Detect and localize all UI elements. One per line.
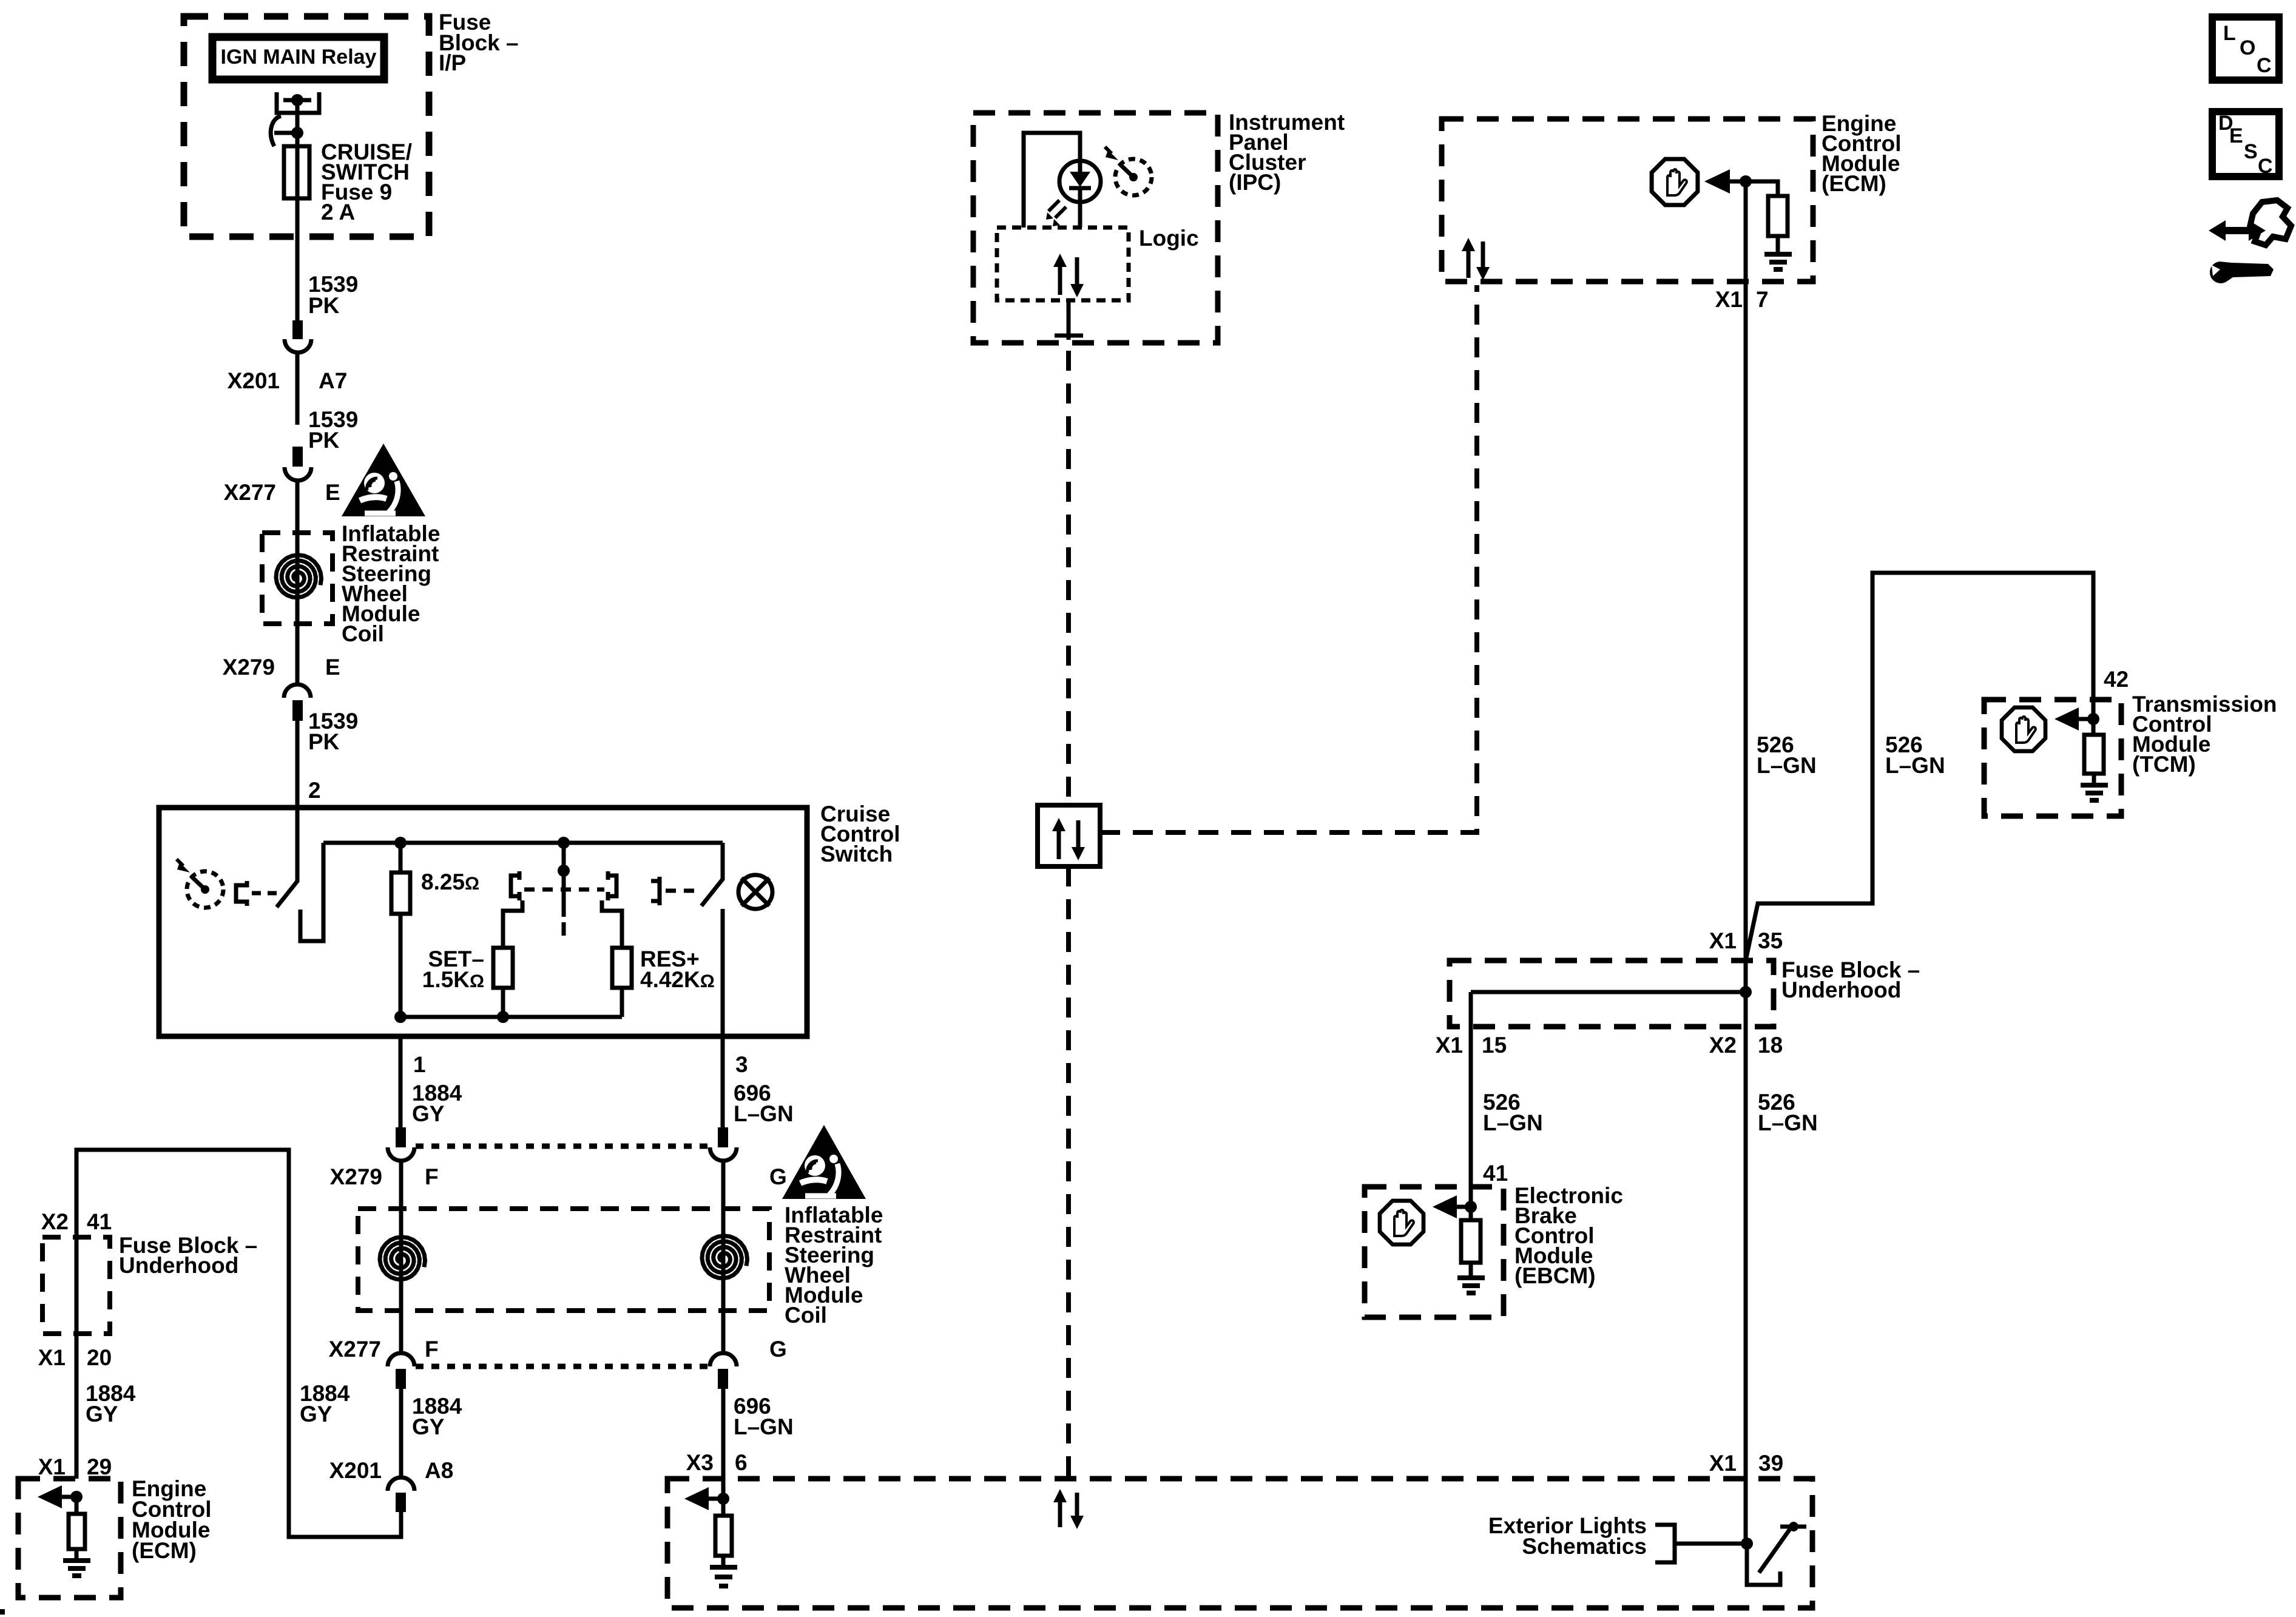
relay armature arc	[271, 116, 281, 146]
resistor TCM	[2092, 719, 2096, 735]
RES fixed contact hook	[602, 900, 622, 948]
svg-text:42: 42	[2104, 667, 2129, 692]
connector X201 A7 socket arc	[285, 339, 311, 353]
resistor 8.25 ohm	[399, 843, 403, 873]
svg-text:Underhood: Underhood	[119, 1253, 238, 1278]
wire pin2 inside box	[295, 808, 300, 882]
wire X1-35 through to X2-18	[1744, 960, 1748, 1027]
fuse CRUISE/SWITCH Fuse 9	[284, 146, 309, 198]
coil symbol F	[380, 1237, 425, 1280]
svg-text:35: 35	[1758, 928, 1783, 953]
svg-text:4.42KΩ: 4.42KΩ	[640, 967, 715, 992]
node bus-pin1	[394, 1011, 407, 1023]
svg-text:X277: X277	[329, 1337, 381, 1362]
wire LED loop	[1024, 133, 1080, 228]
svg-text:C: C	[2258, 155, 2273, 178]
wire 1539 PK (fuse to X201)	[295, 198, 300, 320]
svg-text:E: E	[325, 655, 340, 680]
on/off switch linkage bracket	[236, 881, 247, 906]
svg-text:L–GN: L–GN	[734, 1414, 794, 1439]
coil symbol G	[702, 1236, 748, 1278]
resistor EBCM	[1461, 1220, 1481, 1263]
svg-text:Underhood: Underhood	[1781, 977, 1901, 1002]
svg-text:2: 2	[308, 778, 321, 803]
svg-text:A7: A7	[319, 368, 347, 393]
wire coil2 to X277 F	[399, 1281, 403, 1354]
connector X279 E socket arc	[284, 684, 311, 698]
junction box (serial data)	[1038, 805, 1100, 866]
wire 1539 PK (X201 to X277)	[295, 354, 300, 425]
svg-text:X1: X1	[1715, 287, 1743, 312]
svg-text:1.5KΩ: 1.5KΩ	[422, 967, 484, 992]
svg-text:X277: X277	[224, 480, 276, 505]
coil dashed box 2	[358, 1209, 769, 1311]
SET fixed contact hook	[503, 900, 522, 948]
signal arrow (ECM left)	[59, 1495, 76, 1499]
page mark	[0, 1609, 5, 1615]
wire terminal X279 F	[396, 1127, 406, 1147]
dashed link junction box to exterior lights box	[1066, 866, 1071, 1479]
svg-text:Coil: Coil	[785, 1303, 827, 1328]
svg-text:L–GN: L–GN	[1757, 753, 1817, 778]
relay IGN MAIN Relay box	[212, 37, 384, 79]
svg-text:X2: X2	[1709, 1033, 1737, 1058]
wire 696 L-GN (pin3 to X279 G)	[721, 1036, 725, 1129]
connector X201 A8 socket arc	[388, 1477, 414, 1491]
up/down arrows (ECM)	[1462, 238, 1490, 280]
svg-text:G: G	[769, 1164, 787, 1189]
exterior lights switch contact	[1780, 1525, 1806, 1529]
wire terminal X279 G	[718, 1127, 728, 1147]
wire 1884 GY loop (A8 down, left, up, left)	[76, 1150, 401, 1537]
wire 526 L-GN (ECM X1-7 down to fuse block)	[1744, 181, 1748, 960]
wire X277 to coil	[295, 482, 300, 601]
dashed link IPC to junction box	[1066, 351, 1071, 805]
svg-text:L–GN: L–GN	[1885, 753, 1945, 778]
node EBCM junction	[1465, 1201, 1477, 1213]
svg-text:Logic: Logic	[1139, 226, 1199, 251]
LED indicator	[1059, 161, 1101, 202]
svg-text:39: 39	[1758, 1451, 1783, 1476]
IPC pin tick	[1055, 334, 1083, 338]
indicator lamp	[738, 875, 772, 909]
ECM (bottom left) dashed box	[18, 1479, 121, 1598]
resistor RES 4.42K	[612, 948, 632, 988]
transmission control module dashed box	[1984, 700, 2121, 816]
wire terminal X277 G	[718, 1369, 728, 1389]
connector X277 F socket arc	[388, 1353, 414, 1366]
coil symbol (steering wheel module coil)	[276, 555, 322, 598]
svg-text:X1: X1	[38, 1345, 66, 1370]
svg-text:E: E	[2229, 124, 2243, 147]
svg-text:(ECM): (ECM)	[132, 1538, 197, 1563]
on/off switch blade	[277, 880, 298, 907]
wire terminal X277 F	[396, 1369, 406, 1389]
svg-text:GY: GY	[412, 1414, 445, 1439]
svg-text:18: 18	[1758, 1033, 1783, 1058]
dashed link junction box to ECM	[1100, 285, 1477, 832]
connector pair dotted line X277	[416, 1364, 710, 1369]
svg-text:PK: PK	[308, 293, 340, 318]
svg-text:IGN MAIN Relay: IGN MAIN Relay	[221, 46, 377, 69]
svg-text:Coil: Coil	[342, 621, 384, 646]
up/down arrows (logic)	[1053, 254, 1084, 297]
signal arrow (TCM)	[2074, 717, 2093, 721]
stop-hand octagon (ECM)	[1652, 159, 1698, 205]
resistor ECM	[1768, 196, 1788, 236]
node bus-8.25	[394, 837, 407, 849]
svg-text:29: 29	[87, 1454, 112, 1479]
wire terminal X279 E	[292, 700, 303, 721]
svg-text:F: F	[425, 1164, 439, 1189]
wire pin3 inside box	[721, 909, 725, 1036]
resistor ECM left	[75, 1497, 79, 1514]
speedometer icon	[177, 859, 223, 908]
wire inside fuse block	[1471, 990, 1746, 994]
svg-text:F: F	[425, 1337, 439, 1362]
node bus-set-bottom	[497, 1011, 509, 1023]
node exterior switch junction	[1741, 1538, 1753, 1550]
wire 526 L-GN (X2-18 to exterior lights)	[1744, 1027, 1748, 1544]
harness connector service icon	[2209, 200, 2291, 283]
connector X277 E socket arc	[285, 467, 311, 481]
svg-text:X1: X1	[1709, 928, 1737, 953]
fuse block I/P dashed box	[184, 16, 429, 237]
RES switch linkage dashes	[666, 889, 701, 893]
bottom bus wire	[400, 1015, 622, 1019]
svg-text:E: E	[325, 480, 340, 505]
logic dashed box	[997, 228, 1129, 300]
svg-text:X1: X1	[38, 1454, 66, 1479]
connector X279 F socket arc	[388, 1147, 414, 1161]
on/off switch fixed contact hook	[300, 843, 323, 941]
bus corner to RES blade	[721, 843, 725, 880]
DESC legend box	[2212, 112, 2279, 177]
wire 1539 PK (X279 to cruise box)	[295, 721, 300, 808]
svg-text:3: 3	[735, 1052, 748, 1077]
svg-text:X279: X279	[223, 655, 275, 680]
ground ECM left	[63, 1561, 90, 1576]
wire 1884 GY (X277F to X201 A8)	[399, 1389, 403, 1476]
SET switch common link	[562, 843, 566, 877]
svg-text:7: 7	[1756, 287, 1769, 312]
fuse block underhood (left) dashed box	[42, 1237, 110, 1334]
svg-text:41: 41	[1483, 1161, 1508, 1186]
svg-text:Switch: Switch	[820, 842, 893, 866]
wire X279G to coil2	[721, 1162, 726, 1280]
RES switch bracket	[651, 877, 660, 905]
stop-hand octagon (EBCM)	[1380, 1201, 1423, 1244]
svg-text:O: O	[2240, 36, 2255, 59]
wire relay to fuse	[295, 100, 300, 146]
wire terminal X277 E	[292, 447, 303, 467]
svg-text:(IPC): (IPC)	[1229, 170, 1281, 195]
svg-text:X201: X201	[228, 368, 280, 393]
svg-text:L–GN: L–GN	[734, 1101, 794, 1126]
bracket exterior lights	[1655, 1525, 1675, 1562]
LOC legend box	[2212, 17, 2279, 80]
svg-text:C: C	[2257, 54, 2272, 77]
exterior lights switch blade	[1759, 1529, 1790, 1573]
wire X279F to coil2	[399, 1162, 403, 1281]
svg-text:Schematics: Schematics	[1522, 1534, 1647, 1559]
svg-text:X201: X201	[329, 1458, 382, 1483]
resistor SET 1.5K	[493, 948, 513, 988]
coil dashed box 1	[262, 533, 333, 624]
ground EBCM	[1457, 1278, 1485, 1293]
gauge icon (IPC)	[1105, 147, 1152, 195]
svg-text:PK: PK	[308, 428, 340, 453]
wire coil to X279	[295, 601, 300, 684]
signal arrow (exterior lights X3-6)	[704, 1497, 723, 1501]
svg-text:X279: X279	[330, 1164, 382, 1189]
wire terminal X201 A8	[396, 1493, 406, 1512]
connector X201 A7 terminal	[292, 320, 303, 339]
svg-text:X2: X2	[41, 1209, 69, 1234]
ground TCM	[2081, 785, 2108, 800]
SET switch right bracket	[608, 876, 616, 896]
EBCM dashed box	[1365, 1187, 1504, 1317]
svg-text:8.25Ω: 8.25Ω	[421, 869, 479, 894]
svg-text:L–GN: L–GN	[1483, 1110, 1543, 1135]
svg-text:15: 15	[1482, 1033, 1507, 1058]
node bus-set	[558, 837, 570, 849]
svg-text:(TCM): (TCM)	[2132, 752, 2196, 777]
on/off switch linkage dashes	[252, 891, 277, 896]
exterior lights switch hook	[1747, 1544, 1780, 1585]
fuse block underhood (right) dashed box	[1450, 960, 1774, 1027]
svg-text:L–GN: L–GN	[1758, 1110, 1818, 1135]
svg-text:L: L	[2223, 22, 2236, 45]
SET switch linkage dashes	[524, 888, 604, 892]
svg-text:41: 41	[87, 1209, 112, 1234]
svg-text:(ECM): (ECM)	[1822, 171, 1886, 196]
LED light rays	[1048, 200, 1066, 218]
instrument panel cluster dashed box	[973, 113, 1218, 343]
up/down arrows (junction box)	[1052, 818, 1085, 860]
SET switch left bracket	[511, 876, 519, 896]
wire 526 L-GN TCM branch	[1746, 573, 2093, 960]
resistor exterior lights	[721, 1499, 726, 1516]
svg-text:PK: PK	[308, 729, 340, 754]
wire to ECM resistor	[1746, 181, 1778, 196]
svg-text:GY: GY	[86, 1402, 118, 1426]
wire coil2 to X277 G	[721, 1280, 726, 1354]
node fuse block junction	[1740, 986, 1752, 998]
svg-text:GY: GY	[412, 1101, 445, 1126]
svg-text:6: 6	[735, 1450, 748, 1475]
wire EBCM junction into box	[1469, 1187, 1473, 1220]
wire 526 L-GN (to EBCM)	[1469, 992, 1473, 1187]
ground ECM	[1764, 254, 1792, 269]
svg-text:I/P: I/P	[439, 50, 466, 75]
svg-text:(EBCM): (EBCM)	[1514, 1263, 1596, 1288]
wire bracket to switch	[1675, 1542, 1747, 1546]
node X3-6 junction	[717, 1493, 729, 1505]
svg-text:X1: X1	[1436, 1033, 1463, 1058]
svg-text:X3: X3	[686, 1450, 714, 1475]
engine control module dashed box	[1442, 119, 1813, 282]
svg-text:1: 1	[413, 1052, 426, 1077]
up/down arrows (exterior lights)	[1053, 1489, 1084, 1529]
svg-text:2 A: 2 A	[321, 200, 355, 224]
RES switch blade	[701, 879, 723, 906]
ground exterior lights	[710, 1567, 737, 1586]
node TCM junction	[2087, 713, 2099, 725]
cruise control switch box	[159, 808, 807, 1036]
wire logic to IPC pin	[1067, 300, 1071, 340]
relay contact symbol	[277, 92, 319, 113]
svg-text:A8: A8	[425, 1458, 453, 1483]
top bus wire	[323, 841, 723, 845]
wire LED to logic	[1078, 202, 1082, 228]
SRS warning triangle 2	[782, 1125, 866, 1199]
svg-text:G: G	[769, 1337, 787, 1362]
signal arrow (ECM)	[1726, 180, 1746, 184]
connector X277 G socket arc	[710, 1353, 737, 1366]
svg-text:GY: GY	[300, 1402, 333, 1426]
svg-text:S: S	[2244, 140, 2258, 163]
SRS warning triangle 1	[342, 444, 425, 516]
svg-text:20: 20	[87, 1345, 112, 1370]
connector pair dotted line X279	[416, 1144, 710, 1149]
stop-hand octagon (TCM)	[2002, 707, 2045, 751]
wire 1884 GY (pin1 to X279 F)	[399, 1036, 403, 1129]
node ECM-left junction	[70, 1491, 83, 1503]
exterior lights schematics dashed box	[667, 1479, 1812, 1608]
signal arrow (EBCM)	[1452, 1205, 1471, 1209]
node ECM junction	[1740, 175, 1752, 187]
wire 696 L-GN (X277G down)	[721, 1389, 726, 1499]
connector X279 G socket arc	[710, 1147, 737, 1161]
svg-text:X1: X1	[1709, 1451, 1737, 1476]
